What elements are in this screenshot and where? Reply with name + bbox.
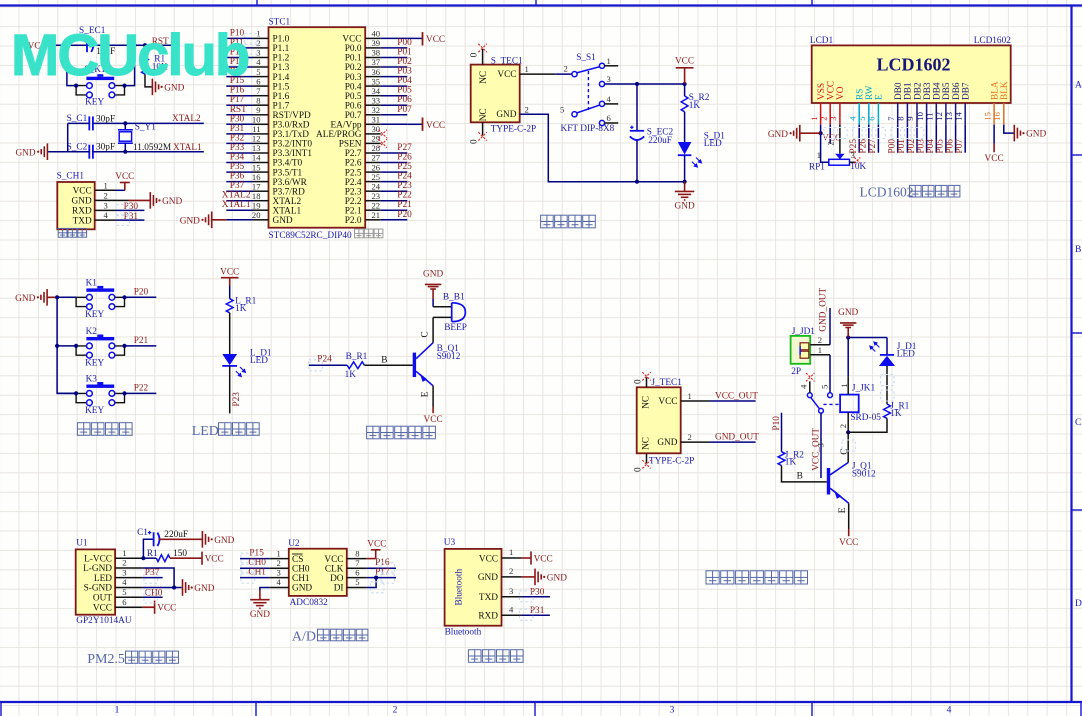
wire C1 to gnd xyxy=(159,538,203,540)
mcu pin 8 P1.7 xyxy=(226,104,253,106)
svg-text:6: 6 xyxy=(256,76,261,86)
svg-text:P0.6: P0.6 xyxy=(345,101,362,111)
svg-text:P01: P01 xyxy=(397,48,412,58)
lcd pin 12 DB5 xyxy=(934,82,952,125)
svg-text:TXD: TXD xyxy=(479,593,498,603)
svg-text:P2.7: P2.7 xyxy=(345,149,362,159)
svg-text:C: C xyxy=(1075,418,1081,428)
svg-text:25: 25 xyxy=(372,172,381,182)
title buzzer circuit xyxy=(367,426,436,439)
power port VCC (S_CH1) xyxy=(115,172,134,190)
mcu pin 26 P2.5 xyxy=(365,171,381,173)
svg-text:4: 4 xyxy=(509,604,514,614)
junction K2 right xyxy=(122,344,126,348)
svg-text:P1.2: P1.2 xyxy=(273,54,290,64)
svg-text:Bluetooth: Bluetooth xyxy=(445,627,482,637)
wire J_R2 to base xyxy=(782,466,827,482)
svg-text:GND: GND xyxy=(162,197,182,207)
svg-text:GND: GND xyxy=(194,584,214,594)
svg-text:LED: LED xyxy=(250,356,268,366)
svg-text:GND: GND xyxy=(72,197,92,207)
svg-text:VCC: VCC xyxy=(675,57,694,67)
svg-text:2: 2 xyxy=(825,141,835,145)
mcu pin 35 P0.4 xyxy=(365,85,381,87)
svg-text:LED: LED xyxy=(704,139,722,149)
pot RP1 10K xyxy=(809,150,867,173)
svg-text:7: 7 xyxy=(886,116,896,121)
svg-text:0: 0 xyxy=(469,139,479,144)
mcu pin 29 PSEN xyxy=(365,142,381,144)
wire P10 to J_R2 xyxy=(781,413,783,452)
junction keys K2 xyxy=(55,344,59,348)
svg-text:P30: P30 xyxy=(530,588,545,598)
svg-text:D: D xyxy=(1075,599,1082,609)
svg-text:4: 4 xyxy=(277,577,282,587)
wire crystal left vertical xyxy=(67,123,69,151)
svg-text:P02: P02 xyxy=(397,57,412,67)
svg-text:P25: P25 xyxy=(397,162,412,172)
svg-text:1K: 1K xyxy=(235,304,247,314)
key K1 xyxy=(76,278,124,320)
svg-text:VCC: VCC xyxy=(205,555,224,565)
wire P24 to B_R1 xyxy=(309,364,347,366)
wire relay contact3 VCC_OUT xyxy=(811,413,825,478)
svg-text:4: 4 xyxy=(947,706,952,716)
wire U1 pin3 P37 xyxy=(143,568,163,578)
S_CH1 pin 3 xyxy=(95,209,116,211)
wire lcd P25 xyxy=(858,125,860,153)
junction gnd rail xyxy=(846,335,850,339)
svg-text:4: 4 xyxy=(122,577,127,587)
svg-text:VCC: VCC xyxy=(157,604,176,614)
junction bottom led xyxy=(683,180,687,184)
svg-text:P1.7: P1.7 xyxy=(273,101,290,111)
U2 pin 4 GND xyxy=(269,577,312,594)
svg-text:XTAL1: XTAL1 xyxy=(222,200,251,210)
svg-text:VCC: VCC xyxy=(426,121,445,131)
mcu pin 7 P1.6 xyxy=(226,95,253,97)
svg-text:PM2.5: PM2.5 xyxy=(87,652,125,667)
J_TEC1 bottom NC stub xyxy=(633,453,650,472)
U1 pin 1 L-VCC xyxy=(84,548,143,565)
svg-text:15: 15 xyxy=(982,112,992,121)
mcu pin 13 P3.3/INT1 xyxy=(226,152,253,154)
wire lcd P27 xyxy=(877,125,879,153)
svg-text:C1: C1 xyxy=(137,528,148,538)
U1 pin 6 VCC xyxy=(93,597,143,614)
svg-text:P21: P21 xyxy=(397,200,412,210)
svg-text:13: 13 xyxy=(944,112,954,121)
junction crystal top xyxy=(123,121,127,125)
wire J_R1 to relay pin2 rail xyxy=(848,418,887,432)
svg-text:1: 1 xyxy=(122,548,126,558)
wire mcu pin31 VCC xyxy=(407,123,422,125)
svg-text:P17: P17 xyxy=(230,95,245,105)
svg-text:2: 2 xyxy=(688,432,692,442)
transistor J_Q1 S9012 xyxy=(827,462,876,504)
wire K1 to P20 xyxy=(125,296,157,298)
svg-text:26: 26 xyxy=(372,162,381,172)
wire lcd VO to pot wiper xyxy=(839,125,841,154)
mcu pin 32 P0.7 xyxy=(365,114,381,116)
svg-text:S_Y1: S_Y1 xyxy=(135,123,157,133)
junction crystal bottom xyxy=(123,150,127,154)
title keys circuit xyxy=(77,423,132,436)
svg-text:VCC: VCC xyxy=(534,554,553,564)
wire reset rail xyxy=(49,44,180,46)
svg-text:K3: K3 xyxy=(86,375,98,385)
svg-text:GND: GND xyxy=(496,110,516,120)
svg-text:DB7: DB7 xyxy=(962,82,972,100)
svg-text:3: 3 xyxy=(815,443,825,447)
svg-text:TYPE-C-2P: TYPE-C-2P xyxy=(649,457,694,467)
svg-text:2: 2 xyxy=(509,566,513,576)
label MCU chinese xyxy=(355,229,383,238)
svg-text:1: 1 xyxy=(607,56,611,66)
wire lcd P05 xyxy=(945,125,947,153)
lcd pin 4 RS xyxy=(847,89,865,125)
svg-text:8: 8 xyxy=(355,548,359,558)
led S_D1 xyxy=(678,112,725,182)
svg-text:P07: P07 xyxy=(955,139,965,154)
svg-text:P3.6/WR: P3.6/WR xyxy=(273,178,308,188)
junction reset rail R1 xyxy=(143,43,147,47)
wire U3 pin4 P31 xyxy=(521,606,550,616)
mcu pin 19 XTAL1 xyxy=(226,209,253,211)
svg-text:5: 5 xyxy=(560,104,564,114)
svg-text:XTAL2: XTAL2 xyxy=(222,191,251,201)
junction lcd VSS gnd xyxy=(819,131,823,135)
svg-text:GND_OUT: GND_OUT xyxy=(715,432,759,442)
svg-text:VO: VO xyxy=(836,86,846,100)
svg-text:P3.1/TxD: P3.1/TxD xyxy=(273,130,310,140)
svg-text:2P: 2P xyxy=(791,367,801,377)
svg-text:DO: DO xyxy=(330,574,344,584)
mcu pin 5 P1.4 xyxy=(226,76,253,78)
svg-text:5: 5 xyxy=(122,587,126,597)
svg-text:P10: P10 xyxy=(772,416,782,431)
svg-text:P1.1: P1.1 xyxy=(273,44,290,54)
power port VCC (U2) xyxy=(367,539,386,558)
svg-text:P26: P26 xyxy=(397,153,412,163)
svg-text:39: 39 xyxy=(372,38,381,48)
lcd pin 5 RW xyxy=(857,85,875,124)
svg-text:3: 3 xyxy=(104,201,108,211)
svg-text:P33: P33 xyxy=(230,143,245,153)
svg-text:BEEP: BEEP xyxy=(444,323,467,333)
mcu pin 21 P2.0 xyxy=(365,219,381,221)
U2 pin 1 CS xyxy=(269,548,303,565)
mcu pin 22 P2.1 xyxy=(365,209,381,211)
svg-text:P2.5: P2.5 xyxy=(345,168,362,178)
svg-text:38: 38 xyxy=(372,48,381,58)
svg-text:P0.7: P0.7 xyxy=(345,111,362,121)
svg-text:6: 6 xyxy=(867,116,877,121)
key S_K1 xyxy=(76,65,124,108)
svg-text:GND: GND xyxy=(838,308,858,318)
switch S_S1 KFT DIP-8X8 xyxy=(560,53,618,134)
mcu pin 24 P2.3 xyxy=(365,190,381,192)
svg-text:P27: P27 xyxy=(397,143,412,153)
wire led to P23 xyxy=(229,366,231,414)
svg-text:1: 1 xyxy=(277,548,281,558)
svg-text:34: 34 xyxy=(372,86,381,96)
svg-text:S_C1: S_C1 xyxy=(67,114,88,124)
svg-text:L-VCC: L-VCC xyxy=(84,554,112,564)
svg-text:5: 5 xyxy=(820,385,830,389)
mcu pin 25 P2.4 xyxy=(365,181,381,183)
mcu pin 11 P3.1/TxD xyxy=(226,133,253,135)
U3 pin 3 TXD xyxy=(479,586,522,603)
svg-text:E: E xyxy=(838,507,848,513)
svg-text:P0.1: P0.1 xyxy=(345,54,362,64)
svg-text:LED: LED xyxy=(897,350,915,360)
S_CH1 pin 1 xyxy=(95,189,116,191)
junction K1 right xyxy=(122,295,126,299)
svg-text:P34: P34 xyxy=(230,153,245,163)
svg-text:P31: P31 xyxy=(230,124,245,134)
power port VCC (mcu pin31) xyxy=(423,118,446,131)
svg-text:P0.5: P0.5 xyxy=(345,92,362,102)
lcd pin 7 DB0 xyxy=(886,82,904,125)
svg-text:P1.4: P1.4 xyxy=(273,73,290,83)
svg-text:NC: NC xyxy=(642,437,652,450)
mcu pin 14 P3.4/T0 xyxy=(226,162,253,164)
svg-text:22: 22 xyxy=(372,200,381,210)
svg-text:5: 5 xyxy=(857,116,867,120)
svg-text:S9012: S9012 xyxy=(852,470,876,480)
svg-text:P23: P23 xyxy=(232,392,242,407)
capacitor C1 220uF xyxy=(137,528,188,558)
mcu pin 40 VCC xyxy=(365,37,381,39)
svg-text:8: 8 xyxy=(256,95,260,105)
lcd pin 8 DB1 xyxy=(896,82,914,125)
mcu pin 36 P0.3 xyxy=(365,76,381,78)
svg-text:220uF: 220uF xyxy=(648,136,672,146)
mcu pin 9 RST/VPD xyxy=(226,114,253,116)
svg-text:35: 35 xyxy=(372,76,381,86)
svg-text:12: 12 xyxy=(934,112,944,121)
connector J_TEC1 TYPE-C-2P xyxy=(637,378,683,453)
title bluetooth module xyxy=(468,650,523,663)
svg-text:31: 31 xyxy=(372,115,381,125)
wire R1 to VCC xyxy=(170,557,202,559)
U2 pin 8 VCC xyxy=(324,548,366,565)
svg-text:C: C xyxy=(840,448,850,454)
wire lcd P06 xyxy=(955,125,957,153)
svg-text:3: 3 xyxy=(670,706,675,716)
mcu pin 6 P1.5 xyxy=(226,85,253,87)
lcd pin 14 DB7 xyxy=(953,82,971,125)
wire lcd P26 xyxy=(868,125,870,153)
svg-text:2: 2 xyxy=(104,191,108,201)
svg-text:1K: 1K xyxy=(689,101,701,111)
U1 pin 3 LED xyxy=(94,567,143,584)
svg-text:37: 37 xyxy=(372,57,381,67)
connector S_CH1 xyxy=(57,172,95,230)
svg-text:3: 3 xyxy=(607,74,611,84)
mcu pin 30 ALE/PROG xyxy=(365,133,381,135)
wire S_K1 left branch xyxy=(67,45,76,85)
svg-text:VCC: VCC xyxy=(73,187,92,197)
svg-text:R1: R1 xyxy=(147,549,158,559)
ground (crystal) xyxy=(15,143,47,160)
wire U3 pin1 VCC xyxy=(521,557,531,559)
svg-text:11: 11 xyxy=(925,112,935,120)
wire lcd P02 xyxy=(916,125,918,153)
svg-text:J_JK1: J_JK1 xyxy=(852,384,876,394)
ground (C1) xyxy=(202,531,234,548)
ground (U1) xyxy=(183,579,215,596)
svg-text:GND: GND xyxy=(768,130,788,140)
svg-text:VCC: VCC xyxy=(324,555,343,565)
svg-text:P2.3: P2.3 xyxy=(345,187,362,197)
svg-text:TXD: TXD xyxy=(73,216,92,226)
wire switch pin3 to VCC node xyxy=(605,83,685,85)
wire power bottom rail xyxy=(520,114,685,182)
U2 pin 7 CLK xyxy=(325,558,367,575)
svg-text:P00: P00 xyxy=(397,38,412,48)
wire J_JD1 pin1 to relay contact 5 xyxy=(829,355,831,393)
svg-text:GND: GND xyxy=(657,438,677,448)
svg-text:RP1: RP1 xyxy=(809,162,825,172)
svg-text:STC89C52RC_DIP40: STC89C52RC_DIP40 xyxy=(269,231,353,241)
wire U2 pin5 DI tie xyxy=(367,578,376,588)
mcu pin 37 P0.2 xyxy=(365,66,381,68)
U3 pin 1 VCC xyxy=(479,547,522,564)
svg-text:STC1: STC1 xyxy=(269,18,291,28)
wire R1 to ground xyxy=(145,74,152,87)
svg-text:29: 29 xyxy=(372,134,381,144)
svg-text:1K: 1K xyxy=(785,458,797,468)
svg-text:PSEN: PSEN xyxy=(339,140,362,150)
ground (reset R1) xyxy=(152,79,184,96)
svg-text:1: 1 xyxy=(817,150,821,160)
svg-text:NC: NC xyxy=(642,396,652,409)
svg-text:B: B xyxy=(797,472,803,482)
wire S_CH1 pin3 P30 xyxy=(116,209,145,211)
svg-text:36: 36 xyxy=(372,67,381,77)
svg-text:10K: 10K xyxy=(850,162,866,172)
svg-text:DI: DI xyxy=(334,584,344,594)
lcd pin 2 VCC xyxy=(818,81,836,125)
svg-text:7: 7 xyxy=(256,86,261,96)
svg-text:P0.0: P0.0 xyxy=(345,44,362,54)
mcu pin 12 P3.2/INT0 xyxy=(226,142,253,144)
svg-text:12: 12 xyxy=(252,134,261,144)
junction reset rail cap-right xyxy=(133,43,137,47)
ground (keys) xyxy=(15,289,57,306)
svg-text:RST: RST xyxy=(230,105,247,115)
svg-text:P30: P30 xyxy=(124,202,139,212)
wire U1 pin5 CH0 xyxy=(143,588,163,598)
capacitor S_C2 30pF xyxy=(67,143,116,159)
svg-text:4: 4 xyxy=(799,384,809,389)
svg-text:U2: U2 xyxy=(288,539,300,549)
mcu pin 28 P2.7 xyxy=(365,152,381,154)
buzzer B_B1 BEEP xyxy=(433,293,467,333)
svg-text:XTAL2: XTAL2 xyxy=(273,197,302,207)
mcu pin 15 P3.5/T1 xyxy=(226,171,253,173)
resistor L_R1 1K xyxy=(226,296,256,314)
mcu pin 39 P0.0 xyxy=(365,47,381,49)
ground (buzzer) xyxy=(423,270,443,299)
wire B_R1 to base xyxy=(364,356,412,366)
lcd pin 9 DB2 xyxy=(905,82,923,125)
wire mcu pin40 VCC xyxy=(407,37,422,39)
svg-text:KEY: KEY xyxy=(85,406,104,416)
U2 pin 6 DO xyxy=(330,567,367,584)
svg-text:P20: P20 xyxy=(134,288,149,298)
wire S_TEC1 pin1 to switch xyxy=(555,73,572,75)
wire U2 pin1 P15 xyxy=(240,548,269,558)
svg-text:KEY: KEY xyxy=(85,98,104,108)
wire lcd BLK to gnd xyxy=(1004,125,1015,134)
svg-text:P3.7/RD: P3.7/RD xyxy=(273,187,306,197)
svg-text:P21: P21 xyxy=(134,336,149,346)
mcu pin 20 GND xyxy=(226,219,253,221)
lcd pin 3 VO xyxy=(828,86,846,124)
svg-text:KFT DIP-8X8: KFT DIP-8X8 xyxy=(561,124,615,134)
J_JD1 pin 1 xyxy=(810,345,830,355)
svg-text:B: B xyxy=(1075,245,1081,255)
svg-text:VCC_OUT: VCC_OUT xyxy=(811,428,821,471)
svg-text:MCUclub: MCUclub xyxy=(11,23,249,88)
svg-text:VCC: VCC xyxy=(367,539,386,549)
wire collector to buzzer xyxy=(421,317,434,342)
svg-text:P0.4: P0.4 xyxy=(345,82,362,92)
svg-text:VCC_OUT: VCC_OUT xyxy=(715,391,758,401)
svg-text:P27: P27 xyxy=(868,139,878,154)
wire lcd BLA to VCC xyxy=(993,125,995,144)
power port VCC (buzzer) xyxy=(424,407,443,425)
mcu pin 3 P1.2 xyxy=(226,57,253,59)
svg-text:P1.6: P1.6 xyxy=(273,92,290,102)
lcd body xyxy=(812,45,1011,103)
U3 pin 2 GND xyxy=(478,566,522,583)
connector J_JD1 2P xyxy=(791,327,816,377)
junction bottom cap xyxy=(635,180,639,184)
U2 pin 5 DI xyxy=(334,577,367,594)
power port VCC (relay) xyxy=(839,529,858,548)
svg-text:E: E xyxy=(875,94,885,100)
svg-text:P05: P05 xyxy=(936,139,946,154)
svg-text:DB4: DB4 xyxy=(933,82,943,100)
wire U2 pin7 P16 xyxy=(367,558,396,568)
svg-text:VCC: VCC xyxy=(220,267,239,277)
svg-text:RXD: RXD xyxy=(478,612,498,622)
resistor R1 150 xyxy=(143,549,187,562)
svg-text:GND: GND xyxy=(547,574,567,584)
U2 pin 2 CH0 xyxy=(269,558,310,575)
resistor J_R2 1K xyxy=(778,450,804,467)
power port VCC (R1) xyxy=(202,552,224,565)
U2 pin 3 CH1 xyxy=(269,567,310,584)
svg-text:P02: P02 xyxy=(907,139,917,154)
junction relay pin2 xyxy=(846,430,850,434)
mcu pin 34 P0.5 xyxy=(365,95,381,97)
wire keys bus xyxy=(57,297,76,393)
led J_D1 xyxy=(870,338,917,405)
svg-text:6: 6 xyxy=(122,597,127,607)
svg-text:1: 1 xyxy=(839,383,849,387)
svg-text:14: 14 xyxy=(953,111,963,120)
svg-text:VCC: VCC xyxy=(424,415,443,425)
svg-text:NC: NC xyxy=(479,71,489,84)
svg-text:SRD-05: SRD-05 xyxy=(850,413,881,423)
svg-text:P06: P06 xyxy=(397,95,412,105)
svg-text:DB0: DB0 xyxy=(894,82,904,100)
